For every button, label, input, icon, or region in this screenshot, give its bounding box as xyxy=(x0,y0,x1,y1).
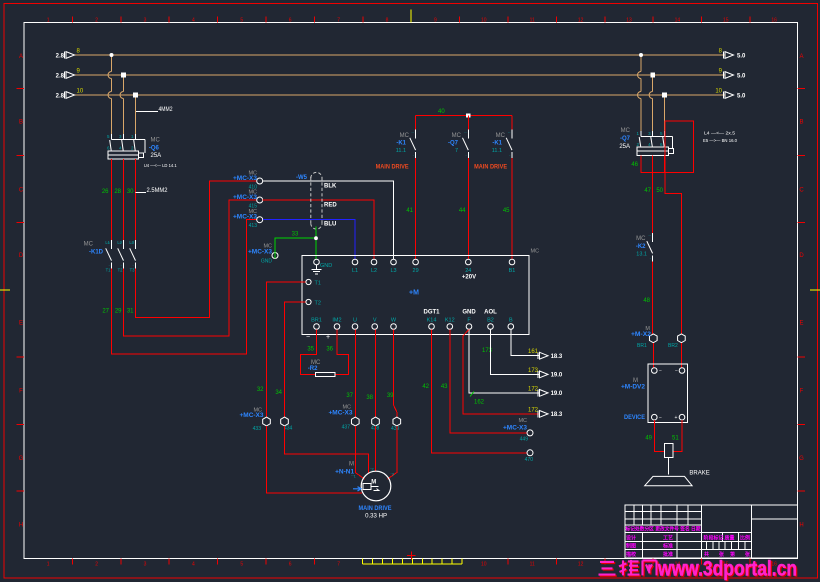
svg-text:39: 39 xyxy=(387,393,394,399)
terminal IM2 xyxy=(334,324,340,330)
svg-text:标准: 标准 xyxy=(662,543,673,550)
contactor K1D pole 3 xyxy=(135,240,137,249)
terminal X3 433 xyxy=(263,417,271,426)
svg-text:阶段标记: 阶段标记 xyxy=(704,535,724,542)
wire 35 xyxy=(301,330,317,375)
off-page arrow 19.0 lower xyxy=(540,390,549,397)
svg-text:2: 2 xyxy=(95,562,98,568)
reference wire from F xyxy=(469,330,540,393)
terminal GND with ground symbol xyxy=(314,259,320,265)
svg-text:D: D xyxy=(19,253,24,259)
terminal X2 BR1 xyxy=(649,334,657,343)
destination arrow 5.0 line 8 xyxy=(725,52,734,59)
wire 26 xyxy=(111,159,113,240)
svg-text:RED: RED xyxy=(324,203,337,209)
svg-text:比例: 比例 xyxy=(740,535,750,542)
power line L1 wire 8 xyxy=(75,54,726,56)
svg-text:-Q6: -Q6 xyxy=(149,146,160,152)
svg-text:32: 32 xyxy=(257,387,264,393)
svg-text:439: 439 xyxy=(391,426,400,432)
junction on L3 xyxy=(133,93,138,98)
svg-text:GND: GND xyxy=(320,263,332,269)
svg-text:H: H xyxy=(19,523,23,529)
junction on green wire xyxy=(314,236,318,240)
svg-text:2: 2 xyxy=(95,18,98,24)
drive contact K1 left xyxy=(415,116,417,130)
svg-text:+MC-X3: +MC-X3 xyxy=(233,176,258,182)
drive contact K1 right xyxy=(511,116,513,130)
wire 46 xyxy=(641,156,665,173)
svg-text:6: 6 xyxy=(289,18,292,24)
wire 45 xyxy=(511,158,513,259)
svg-text:29: 29 xyxy=(413,268,419,274)
svg-text:C: C xyxy=(19,188,24,194)
svg-text:11.1: 11.1 xyxy=(492,148,502,154)
svg-text:制图: 制图 xyxy=(626,543,636,550)
wire size label 2.5MM2 xyxy=(136,192,147,194)
svg-text:51: 51 xyxy=(672,436,679,442)
terminal L1 xyxy=(352,259,358,265)
breaker Q6 tie bar and actuator xyxy=(112,138,145,140)
svg-text:13: 13 xyxy=(626,18,632,24)
svg-text:−: − xyxy=(306,334,310,341)
svg-text:+20V: +20V xyxy=(462,275,476,281)
drive contact Q7 middle xyxy=(467,116,469,130)
svg-text:25A: 25A xyxy=(619,144,630,150)
svg-text:40: 40 xyxy=(438,109,445,115)
svg-text:+: + xyxy=(675,415,678,421)
svg-text:T2: T2 xyxy=(118,268,124,273)
svg-text:E: E xyxy=(19,321,23,327)
junction on L1 xyxy=(110,53,114,57)
svg-text:G: G xyxy=(19,456,24,462)
svg-text:L2: L2 xyxy=(117,240,122,245)
svg-text:MC: MC xyxy=(636,236,646,242)
contactor K1D pole 1 xyxy=(111,240,113,249)
svg-text:BLK: BLK xyxy=(324,184,337,190)
terminal B2 xyxy=(488,324,494,330)
svg-text:T1: T1 xyxy=(315,281,321,287)
terminal K12 xyxy=(447,324,453,330)
breaker Q7 poles and blades xyxy=(640,131,642,137)
terminal BR1 xyxy=(314,324,320,330)
svg-text:-R2: -R2 xyxy=(308,366,318,372)
terminal 24 xyxy=(466,259,472,265)
wire 34 xyxy=(285,302,306,417)
svg-text:−: − xyxy=(675,369,678,375)
destination arrow 5.0 line 10 xyxy=(725,92,734,99)
svg-text:G: G xyxy=(799,456,804,462)
svg-text:12: 12 xyxy=(578,18,584,24)
tap wire from L3 to Q6 pole 3 xyxy=(135,95,137,134)
svg-text:+: + xyxy=(326,334,330,341)
left border row ticks xyxy=(17,88,25,90)
terminal K14 xyxy=(429,324,435,330)
bottom center fold cross xyxy=(407,555,416,557)
svg-text:M: M xyxy=(633,378,638,384)
terminal MC-X3 410 xyxy=(257,178,263,184)
svg-text:D: D xyxy=(799,253,804,259)
svg-text:+MC-X3: +MC-X3 xyxy=(329,411,354,417)
wire 30 xyxy=(135,159,137,240)
terminal B xyxy=(508,324,514,330)
svg-text:11: 11 xyxy=(530,562,535,568)
svg-text:19.0: 19.0 xyxy=(551,391,563,397)
svg-text:T3: T3 xyxy=(130,268,136,273)
svg-text:+MC-X3: +MC-X3 xyxy=(240,413,265,419)
wire size label 4MM2 xyxy=(136,111,158,113)
power line L3 wire 10 xyxy=(75,94,726,96)
terminal T2 xyxy=(306,299,311,304)
svg-text:+M-X2: +M-X2 xyxy=(631,332,652,338)
svg-text:DEVICE: DEVICE xyxy=(624,415,645,421)
svg-text:−: − xyxy=(659,369,662,375)
reference wire from B xyxy=(511,330,540,356)
svg-text:BR2: BR2 xyxy=(668,343,678,349)
svg-text:ˉˆ1: ˉˆ1 xyxy=(351,474,357,479)
svg-text:37: 37 xyxy=(346,393,353,399)
drive unit U1 outline xyxy=(302,256,529,335)
power line L2 wire 9 xyxy=(75,74,726,76)
contactor K1D pole 2 xyxy=(123,240,125,249)
conductor RED wire xyxy=(263,200,374,259)
svg-text:-W5: -W5 xyxy=(296,175,308,181)
terminal X3 434 xyxy=(281,417,289,426)
terminal W xyxy=(391,324,397,330)
svg-text:6: 6 xyxy=(289,562,292,568)
svg-text:10: 10 xyxy=(77,89,84,95)
source arrow 2.8 line 9 xyxy=(66,72,75,79)
svg-text:161: 161 xyxy=(528,349,539,355)
svg-text:35: 35 xyxy=(307,347,314,353)
svg-text:B2: B2 xyxy=(487,317,494,323)
svg-text:41: 41 xyxy=(406,208,413,214)
svg-text:2.8: 2.8 xyxy=(56,93,65,99)
svg-text:19.0: 19.0 xyxy=(551,373,563,379)
svg-text:5.0: 5.0 xyxy=(737,53,746,59)
wire 41 xyxy=(415,158,417,259)
svg-text:172: 172 xyxy=(528,386,539,392)
svg-text:www.3dportal.cn: www.3dportal.cn xyxy=(657,557,797,580)
svg-text:AOL: AOL xyxy=(484,310,497,316)
svg-text:36: 36 xyxy=(326,347,333,353)
svg-text:4: 4 xyxy=(192,562,195,568)
svg-text:44: 44 xyxy=(459,208,466,214)
breaker Q6 poles and blades xyxy=(111,134,113,139)
conductor BLU wire xyxy=(263,220,355,259)
wire 37 xyxy=(354,330,356,418)
svg-text:MC: MC xyxy=(84,242,94,248)
svg-text:F: F xyxy=(19,389,23,395)
wire 37 lower run xyxy=(355,426,364,479)
motor feed arrow mark xyxy=(353,487,361,491)
wire 29 xyxy=(124,200,257,336)
terminal 29 xyxy=(413,259,419,265)
svg-text:-K1: -K1 xyxy=(492,140,502,146)
svg-text:13.1: 13.1 xyxy=(636,252,647,258)
svg-text:11: 11 xyxy=(530,18,535,24)
terminal F xyxy=(466,324,472,330)
ground symbol xyxy=(316,265,318,270)
svg-text:MAIN DRIVE: MAIN DRIVE xyxy=(376,165,409,171)
svg-text:12: 12 xyxy=(578,562,584,568)
wire 32 lower run to motor xyxy=(267,426,362,493)
left center fold mark xyxy=(0,289,10,291)
svg-text:-K1: -K1 xyxy=(396,140,406,146)
resistor R2 xyxy=(316,373,335,377)
brake coil xyxy=(665,444,673,458)
svg-text:质量: 质量 xyxy=(725,535,735,542)
svg-text:K14: K14 xyxy=(427,317,437,323)
svg-text:10: 10 xyxy=(715,89,722,95)
wire 32 xyxy=(267,282,306,417)
reference wire red from F xyxy=(463,330,540,414)
wire 38 lower run xyxy=(375,426,377,471)
bottom border column ticks xyxy=(71,558,73,564)
svg-text:433: 433 xyxy=(253,426,262,432)
svg-text:DGT1: DGT1 xyxy=(423,310,440,316)
svg-text:16: 16 xyxy=(771,18,777,24)
svg-text:34: 34 xyxy=(275,390,282,396)
svg-text:33: 33 xyxy=(292,232,299,238)
junction Q7 L1 xyxy=(639,53,643,57)
svg-text:L1: L1 xyxy=(352,268,358,274)
svg-text:标记处数分区 更改文件号 签名 日期: 标记处数分区 更改文件号 签名 日期 xyxy=(625,526,701,533)
svg-text:413: 413 xyxy=(249,223,258,229)
reference wire from B2 xyxy=(491,330,540,375)
svg-text:GND: GND xyxy=(261,259,273,265)
svg-text:449: 449 xyxy=(520,437,529,443)
svg-text:MC: MC xyxy=(151,138,161,144)
svg-text:K12: K12 xyxy=(445,317,455,323)
svg-text:C: C xyxy=(799,188,804,194)
top center fold mark xyxy=(410,10,412,23)
watermark 3dportal xyxy=(600,561,658,577)
svg-text:-Q7: -Q7 xyxy=(620,136,631,142)
svg-text:MC: MC xyxy=(531,249,540,255)
svg-text:10: 10 xyxy=(481,562,487,568)
junction Q7 L3 xyxy=(662,93,667,98)
svg-text:M: M xyxy=(349,461,354,467)
tap wire from L3 to Q7 pole 3 xyxy=(664,95,666,131)
svg-text:5: 5 xyxy=(240,18,243,24)
svg-text:描校: 描校 xyxy=(625,551,637,558)
wire 43 K12 output xyxy=(450,330,527,433)
svg-text:L4 —<— 2x.5: L4 —<— 2x.5 xyxy=(704,131,736,136)
contact supply bus wire 40 xyxy=(416,115,512,117)
svg-text:MC: MC xyxy=(452,133,462,139)
wire 44 xyxy=(467,158,469,259)
wire 38 xyxy=(375,330,377,418)
svg-text:U4 —<— LD 14.1: U4 —<— LD 14.1 xyxy=(144,163,177,168)
svg-text:MC: MC xyxy=(400,133,410,139)
svg-text:4MM2: 4MM2 xyxy=(159,107,174,113)
svg-text:B1: B1 xyxy=(509,268,516,274)
wire 34 lower run to motor xyxy=(285,426,369,474)
svg-text:L3: L3 xyxy=(390,268,396,274)
svg-text:BRAKE: BRAKE xyxy=(689,471,709,477)
svg-text:工艺: 工艺 xyxy=(663,535,673,542)
right border row ticks xyxy=(798,88,805,90)
wire 31 xyxy=(136,181,257,317)
wire 28 xyxy=(123,159,125,240)
wire 39 xyxy=(394,330,397,418)
terminal X2 BR2 xyxy=(678,334,686,343)
terminal MC-X3 GND xyxy=(272,253,278,259)
bottom center scale ruler xyxy=(363,559,463,564)
svg-text:437: 437 xyxy=(342,425,351,431)
svg-text:18.3: 18.3 xyxy=(551,412,563,418)
wire 49 xyxy=(654,420,664,452)
svg-text:45: 45 xyxy=(503,208,510,214)
off-page arrow 18.3 top xyxy=(540,352,549,359)
svg-text:L1: L1 xyxy=(105,240,110,245)
svg-text:30: 30 xyxy=(127,189,134,195)
svg-text:2.8: 2.8 xyxy=(56,53,65,59)
terminal T1 xyxy=(306,279,311,284)
wire 42 K14 output xyxy=(432,330,527,453)
svg-text:IM2: IM2 xyxy=(332,317,341,323)
svg-text:5: 5 xyxy=(240,562,243,568)
tap wire from L1 to Q7 pole 1 xyxy=(640,55,642,72)
svg-text:49: 49 xyxy=(645,436,652,442)
terminal L3 xyxy=(391,259,397,265)
svg-text:172: 172 xyxy=(528,407,539,413)
svg-text:15: 15 xyxy=(723,18,729,24)
svg-text:+M-DV2: +M-DV2 xyxy=(621,385,646,391)
svg-text:7: 7 xyxy=(337,18,340,24)
wire 27 xyxy=(112,220,257,354)
device DV2 box xyxy=(648,364,688,422)
svg-text:1: 1 xyxy=(47,18,50,24)
svg-text:F: F xyxy=(800,389,804,395)
tap wire from L2 to Q6 pole 2 xyxy=(123,75,125,92)
svg-text:A: A xyxy=(19,54,23,60)
svg-text:38: 38 xyxy=(366,395,373,401)
svg-text:48: 48 xyxy=(643,298,650,304)
highlight box around Q7 output xyxy=(665,121,693,173)
wire 50 xyxy=(665,173,681,334)
terminal X3 437 xyxy=(351,417,359,426)
terminal B1 xyxy=(509,259,515,265)
wire to device right xyxy=(680,343,682,368)
svg-text:-K1D: -K1D xyxy=(89,250,104,256)
svg-text:25A: 25A xyxy=(151,153,162,159)
svg-text:7: 7 xyxy=(337,562,340,568)
svg-text:46: 46 xyxy=(631,162,638,168)
brake actuator xyxy=(668,457,670,474)
svg-text:173: 173 xyxy=(482,348,493,354)
wire to device left xyxy=(652,343,654,368)
svg-text:47: 47 xyxy=(644,188,651,194)
title block texts xyxy=(625,526,751,559)
svg-text:BLU: BLU xyxy=(324,222,336,228)
svg-text:BR1: BR1 xyxy=(637,343,647,349)
svg-text:B: B xyxy=(799,120,803,126)
svg-text:M: M xyxy=(371,480,376,486)
terminal U xyxy=(352,324,358,330)
fuse body of Q7 xyxy=(637,147,669,156)
svg-text:+MC-X3: +MC-X3 xyxy=(233,195,258,201)
tap wire from L1 to Q6 pole 1 xyxy=(111,55,113,72)
svg-text:3: 3 xyxy=(144,18,147,24)
svg-text:L2: L2 xyxy=(371,268,377,274)
svg-text:5.0: 5.0 xyxy=(737,93,746,99)
right center fold mark xyxy=(810,289,820,291)
top border column ticks xyxy=(71,17,73,23)
svg-text:31: 31 xyxy=(127,309,134,315)
destination arrow 5.0 line 9 xyxy=(725,72,734,79)
terminal X3 438 xyxy=(372,417,380,426)
off-page arrow 19.0 upper xyxy=(540,371,549,378)
svg-text:18.3: 18.3 xyxy=(551,354,563,360)
svg-text:470: 470 xyxy=(525,457,534,463)
motor M1 circle xyxy=(361,471,391,501)
title block grid xyxy=(625,505,798,558)
svg-text:−: − xyxy=(659,415,662,421)
svg-text:10: 10 xyxy=(481,18,487,24)
conductor BLK wire xyxy=(263,181,394,259)
tap wire from L2 to Q7 pole 2 xyxy=(652,75,654,92)
svg-text:MC: MC xyxy=(518,418,527,424)
svg-text:B: B xyxy=(509,317,513,323)
svg-text:+MC-X3: +MC-X3 xyxy=(233,215,258,221)
svg-text:MC: MC xyxy=(496,133,506,139)
svg-text:2.5MM2: 2.5MM2 xyxy=(147,188,169,194)
terminal X3 439 xyxy=(393,417,401,426)
source arrow 2.8 line 8 xyxy=(66,52,75,59)
svg-text:+MC-X3: +MC-X3 xyxy=(248,249,273,255)
terminal 449 xyxy=(527,430,533,436)
wire 39 lower run xyxy=(388,426,397,479)
auxiliary contact K2 xyxy=(652,233,654,242)
svg-text:MC: MC xyxy=(621,128,631,134)
svg-text:0.33 HP: 0.33 HP xyxy=(365,513,387,519)
svg-text:设计: 设计 xyxy=(626,535,636,542)
svg-text:+MC-X3: +MC-X3 xyxy=(503,425,528,431)
green ground wire 33 xyxy=(275,238,316,258)
svg-text:GND: GND xyxy=(462,310,476,316)
svg-text:B: B xyxy=(19,120,23,126)
svg-text:U: U xyxy=(353,317,357,323)
svg-text:5.0: 5.0 xyxy=(737,73,746,79)
svg-text:MAIN DRIVE: MAIN DRIVE xyxy=(359,505,393,512)
wire 47 xyxy=(652,173,654,233)
svg-text:8: 8 xyxy=(386,18,389,24)
terminal MC-X3 415 xyxy=(257,197,263,203)
svg-text:E5 —>— BN 16.0: E5 —>— BN 16.0 xyxy=(703,138,737,143)
svg-text:50: 50 xyxy=(656,188,663,194)
svg-text:BR1: BR1 xyxy=(311,317,322,323)
terminal MC-X3 413 xyxy=(257,217,263,223)
svg-text:28: 28 xyxy=(114,189,121,195)
svg-text:+M: +M xyxy=(409,290,419,297)
svg-text:43: 43 xyxy=(441,384,448,390)
svg-text:-K2: -K2 xyxy=(636,244,646,250)
svg-text:H: H xyxy=(799,523,803,529)
svg-text:1: 1 xyxy=(47,562,50,568)
terminal V xyxy=(372,324,378,330)
junction Q7 L2 xyxy=(650,73,655,78)
svg-text:173: 173 xyxy=(528,368,539,374)
svg-text:T1: T1 xyxy=(106,268,112,273)
off-page arrow 18.3 bottom xyxy=(540,411,549,418)
junction on L2 xyxy=(121,73,126,78)
breaker Q7 tie bar xyxy=(641,135,673,137)
svg-text:4: 4 xyxy=(192,18,195,24)
svg-text:14: 14 xyxy=(675,18,681,24)
svg-text:26: 26 xyxy=(102,189,109,195)
